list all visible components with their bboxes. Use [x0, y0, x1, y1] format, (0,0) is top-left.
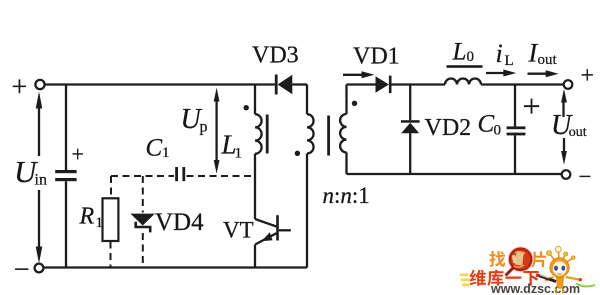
svg-text:out: out	[538, 52, 558, 68]
svg-text:www.dzsc.com: www.dzsc.com	[490, 282, 580, 295]
svg-text:VT: VT	[223, 218, 254, 243]
svg-text:+: +	[12, 72, 28, 103]
svg-text:0: 0	[494, 123, 502, 139]
svg-text:−: −	[14, 254, 30, 285]
svg-text:out: out	[569, 125, 587, 140]
svg-text:VD2: VD2	[425, 115, 472, 141]
svg-text:L: L	[505, 53, 514, 69]
svg-text:VD3: VD3	[252, 43, 299, 69]
svg-text:in: in	[35, 172, 47, 189]
svg-text:1: 1	[96, 215, 104, 231]
svg-text:1: 1	[162, 145, 170, 161]
svg-text:i: i	[496, 39, 503, 68]
svg-text:VD1: VD1	[353, 44, 400, 70]
svg-text:VD4: VD4	[155, 209, 204, 236]
svg-text:p: p	[200, 119, 208, 136]
svg-text:+: +	[72, 142, 84, 167]
svg-text:−: −	[579, 164, 592, 189]
svg-text:L: L	[452, 39, 467, 66]
svg-text:C: C	[146, 135, 163, 162]
svg-text:C: C	[478, 111, 495, 138]
svg-text:+: +	[581, 63, 595, 89]
svg-text:+: +	[523, 88, 541, 124]
svg-text:n:n:1: n:n:1	[323, 183, 370, 208]
svg-text:R: R	[79, 204, 95, 230]
svg-text:0: 0	[467, 49, 475, 65]
svg-text:1: 1	[235, 146, 243, 162]
